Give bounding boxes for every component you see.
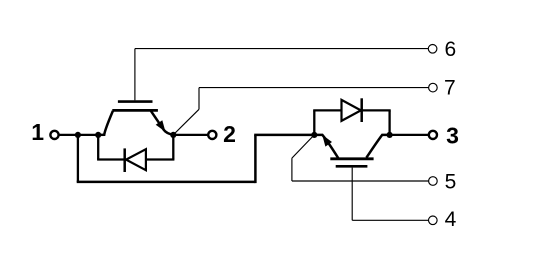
wire pin 7 horizontal [199, 87, 429, 89]
wire pin 4 horizontal [352, 219, 428, 221]
svg-text:3: 3 [446, 122, 459, 148]
pin 7 [429, 83, 438, 92]
svg-text:7: 7 [444, 76, 456, 99]
wire pin 7 vertical [198, 88, 200, 110]
svg-text:1: 1 [31, 119, 44, 145]
wire diode D2 loop left [313, 110, 315, 134]
diode D1 triangle [126, 149, 146, 170]
transistor T2 emitter arrow [322, 135, 332, 147]
transistor T1 gate bar [118, 100, 153, 103]
diode D1 cathode bar [123, 148, 126, 172]
wire diode D1 anode lead [146, 158, 175, 160]
wire pin 5 diagonal from node C [292, 135, 314, 158]
wire node D to terminal 3 [390, 134, 429, 136]
terminal 3 [429, 131, 437, 139]
wire diode D2 loop right [388, 110, 390, 134]
terminal 1 [50, 131, 58, 139]
wire node E to terminal 2 [173, 134, 208, 136]
svg-text:6: 6 [445, 38, 457, 61]
diode D1 anode-side loop left [97, 135, 99, 160]
wire diode D2 anode lead [313, 109, 341, 111]
transistor T1 emitter arrow [156, 120, 166, 132]
wire diode D2 cathode lead [362, 109, 391, 111]
wire pin 7 diagonal to node E [174, 109, 200, 134]
wire pin 5 horizontal [292, 180, 429, 182]
wire diode D1 loop right [172, 135, 174, 160]
wire pin 5 vertical [291, 158, 293, 181]
wire bottom bus up [254, 135, 257, 183]
pin 5 [429, 177, 438, 186]
wire T1 gate vertical [134, 49, 136, 101]
pin 6 [428, 45, 437, 54]
transistor T2 gate bar [336, 165, 368, 168]
transistor T1 emitter leg [151, 111, 173, 135]
diode D2 cathode bar [360, 98, 363, 122]
transistor T1 body bar [112, 109, 158, 112]
node C junction dot [311, 132, 317, 138]
transistor T2 collector leg [366, 135, 390, 158]
svg-text:4: 4 [445, 208, 457, 231]
wire diode D1 cathode lead [97, 158, 125, 160]
node A junction dot [75, 132, 81, 138]
wire bottom bus horizontal [77, 181, 256, 184]
wire bus to node C [254, 134, 314, 137]
terminal 2 [208, 131, 216, 139]
transistor T1 collector leg [98, 111, 113, 135]
wire pin 6 horizontal [135, 48, 428, 50]
svg-text:5: 5 [445, 170, 457, 193]
node B junction dot [95, 132, 101, 138]
transistor T2 emitter leg [314, 135, 338, 158]
pin 4 [429, 216, 438, 225]
transistor T2 body bar [330, 157, 373, 160]
wire T2 gate vertical [351, 168, 353, 221]
svg-text:2: 2 [223, 121, 236, 147]
node D junction dot [387, 132, 393, 138]
wire node A down [77, 135, 79, 182]
diode D2 triangle [342, 100, 361, 121]
node E junction dot (T1 emitter) [170, 132, 176, 138]
wire terminal1 to node B [59, 134, 100, 136]
